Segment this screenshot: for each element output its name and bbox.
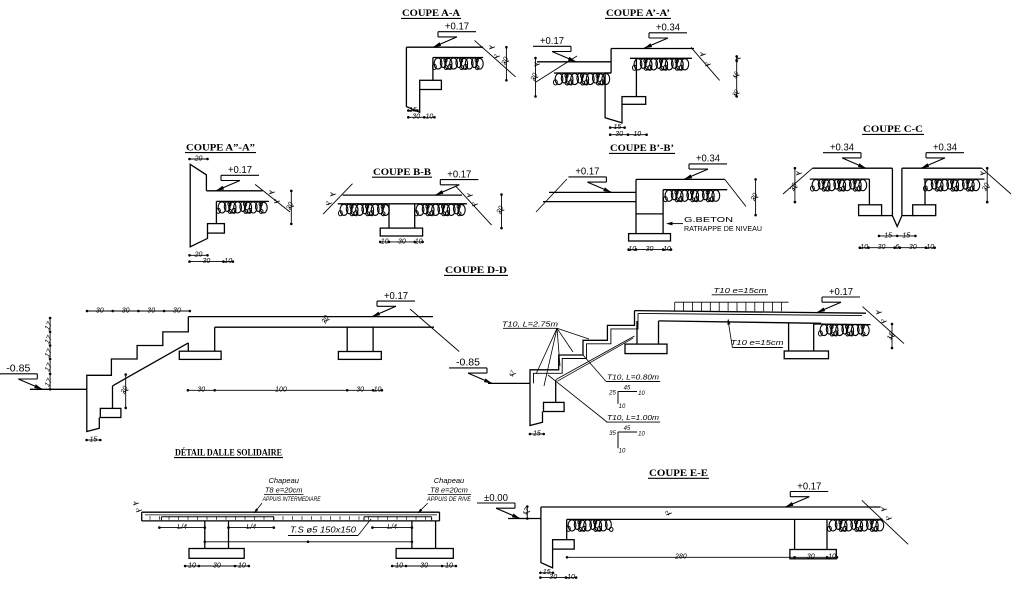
svg-text:30: 30 <box>96 307 104 314</box>
slab top line A-A <box>406 46 483 48</box>
left support detail <box>204 521 206 549</box>
svg-text:+0.17: +0.17 <box>447 169 471 180</box>
svg-text:T.S ø5 150x150: T.S ø5 150x150 <box>290 526 357 535</box>
stair base vertical dim <box>125 375 127 408</box>
svg-text:T10 e=15cm: T10 e=15cm <box>731 338 784 347</box>
left landing beam D-D <box>187 343 189 351</box>
level marker +0.34 B'-B' <box>689 163 727 165</box>
svg-text:10: 10 <box>567 574 575 581</box>
right break diagonal B-B <box>456 187 492 226</box>
svg-text:-0.85: -0.85 <box>456 358 480 369</box>
svg-text:30: 30 <box>398 238 406 245</box>
upper hourdis blocks B'-B' <box>665 190 673 201</box>
svg-text:+0.17: +0.17 <box>575 167 599 178</box>
level marker -0.85 right D-D <box>449 367 487 369</box>
level marker +-0.00 E-E <box>477 502 515 504</box>
break diagonal right A''-A'' <box>255 184 290 212</box>
svg-text:DÉTAIL DALLE SOLIDAIRE: DÉTAIL DALLE SOLIDAIRE <box>175 447 282 457</box>
svg-text:10: 10 <box>619 404 626 410</box>
svg-text:30: 30 <box>356 387 364 394</box>
top rebar ticks T10 e=15cm <box>675 301 789 303</box>
mini dim 17 E-E <box>526 507 528 519</box>
right chapeau bar <box>364 516 432 518</box>
left support right D-D <box>636 321 638 344</box>
svg-text:100: 100 <box>275 387 287 394</box>
level marker +0.34 A'-A' <box>649 32 687 34</box>
svg-text:30: 30 <box>197 387 205 394</box>
svg-text:G.BETON: G.BETON <box>684 215 733 224</box>
right hourdis blocks E-E <box>829 520 837 531</box>
left chapeau bar <box>161 516 273 518</box>
svg-text:+0.17: +0.17 <box>797 481 821 492</box>
floor line right D-D <box>488 382 530 384</box>
left vertical dim A'-A' <box>535 58 537 96</box>
level marker +0.17 B-B <box>440 179 478 181</box>
svg-text:+0.34: +0.34 <box>696 154 720 165</box>
hourdis blocks A''-A'' <box>218 202 226 213</box>
left hourdis blocks A'-A' <box>555 73 563 84</box>
svg-text:+0.17: +0.17 <box>384 291 408 302</box>
svg-text:COUPE B’-B’: COUPE B’-B’ <box>610 143 674 153</box>
svg-text:30: 30 <box>412 114 420 121</box>
svg-text:10: 10 <box>188 562 196 569</box>
svg-text:T10, L=0.80m: T10, L=0.80m <box>607 372 659 381</box>
level marker +0.34 left C-C <box>823 152 861 154</box>
right stair base <box>530 383 543 425</box>
svg-text:10: 10 <box>926 244 934 251</box>
bottom dims B'-B' <box>629 249 671 251</box>
left slab soffit C-C <box>810 178 870 180</box>
svg-text:10: 10 <box>395 562 403 569</box>
vertical dim right A''-A'' <box>290 191 292 224</box>
svg-text:RATRAPPE DE NIVEAU: RATRAPPE DE NIVEAU <box>684 224 762 233</box>
svg-text:30: 30 <box>549 574 557 581</box>
staircase outline D-D <box>87 317 189 390</box>
svg-text:25: 25 <box>608 391 616 397</box>
upper slab soffit B'-B' <box>663 189 727 191</box>
right support right D-D <box>788 323 790 351</box>
svg-text:COUPE E-E: COUPE E-E <box>649 468 708 478</box>
bent bar diagram 0.80 <box>618 391 637 393</box>
upper slab top B'-B' <box>636 178 725 180</box>
riser dims 17 x5 <box>49 318 51 389</box>
center beam A'-A' <box>610 49 612 74</box>
svg-text:30: 30 <box>173 307 181 314</box>
slab soffit line A-A <box>433 57 483 59</box>
slab outline detail <box>142 511 440 513</box>
right support detail <box>411 521 413 549</box>
right hourdis blocks B-B <box>416 204 424 215</box>
right stair rebar line <box>534 313 639 383</box>
right break diagonal A'-A' <box>691 47 720 80</box>
right break diagonal B'-B' <box>725 179 746 206</box>
svg-text:-0.85: -0.85 <box>6 364 30 375</box>
svg-text:COUPE D-D: COUPE D-D <box>445 265 508 275</box>
ledge rect A''-A'' <box>208 224 225 234</box>
svg-text:45: 45 <box>624 426 631 432</box>
svg-text:APPUIS INTERMEDIARE: APPUIS INTERMEDIARE <box>262 497 322 503</box>
svg-text:45: 45 <box>624 385 631 391</box>
left hourdis blocks C-C <box>812 180 820 191</box>
svg-text:COUPE A”-A”: COUPE A”-A” <box>186 142 256 152</box>
slab rebar line right D-D <box>638 313 862 315</box>
svg-text:+0.34: +0.34 <box>933 143 957 154</box>
svg-text:10: 10 <box>426 114 434 121</box>
svg-text:6: 6 <box>895 244 899 251</box>
svg-text:30: 30 <box>646 246 654 253</box>
svg-text:±0.00: ±0.00 <box>484 493 508 504</box>
svg-text:T8 e=20cm: T8 e=20cm <box>265 485 303 494</box>
svg-text:Chapeau: Chapeau <box>434 476 465 485</box>
svg-text:T10, L=1.00m: T10, L=1.00m <box>607 413 659 422</box>
hourdis blocks A-A <box>434 58 442 69</box>
svg-text:+0.17: +0.17 <box>445 22 469 33</box>
mid slab mark E-E <box>666 513 672 515</box>
bottom dim 280 E-E <box>567 556 837 558</box>
left wall E-E <box>541 507 553 568</box>
right slab top C-C <box>902 167 982 169</box>
svg-text:+0.34: +0.34 <box>656 23 680 34</box>
level marker +0.17 A'-A' <box>533 45 571 47</box>
beam footing B'-B' <box>629 234 671 241</box>
svg-text:L/4: L/4 <box>387 524 397 531</box>
svg-text:10: 10 <box>638 431 645 437</box>
break diagonal D-D left part <box>410 309 459 352</box>
svg-text:+0.17: +0.17 <box>829 287 853 298</box>
svg-text:15: 15 <box>902 232 910 239</box>
svg-text:30: 30 <box>122 307 130 314</box>
footing dims detail <box>185 565 249 567</box>
right break diagonal C-C <box>982 168 1011 194</box>
right slab soffit C-C <box>924 178 985 180</box>
right slab top A'-A' <box>611 48 694 50</box>
svg-text:15: 15 <box>533 430 541 437</box>
stair base dim 15 <box>87 439 101 441</box>
level marker +0.17 A-A <box>438 31 476 33</box>
hourdis blocks right D-D <box>820 324 828 335</box>
right hourdis blocks C-C <box>925 180 933 191</box>
svg-text:35: 35 <box>609 431 616 437</box>
vertical dim right B-B <box>501 195 503 229</box>
oblique dims right D-D <box>876 312 882 314</box>
far right vertical dim A'-A' <box>736 56 738 96</box>
left slab top C-C <box>813 167 893 169</box>
oblique dims 4/2 A''-A'' <box>269 192 275 194</box>
L/4 dims detail <box>159 527 204 529</box>
battered wall outline A''-A'' <box>190 164 207 247</box>
left hourdis blocks B-B <box>340 204 348 215</box>
slab thickness mark D-D <box>324 319 330 321</box>
stair sloped soffit D-D <box>113 343 189 386</box>
svg-text:30: 30 <box>203 258 211 265</box>
slab top line D-D <box>188 316 433 318</box>
svg-text:COUPE C-C: COUPE C-C <box>863 124 923 134</box>
slab bottom right D-D <box>659 321 822 323</box>
slab soffit E-E <box>567 518 883 520</box>
wall and beam outline A-A <box>406 47 419 112</box>
long dim between supports <box>205 541 412 543</box>
svg-text:30: 30 <box>213 562 221 569</box>
fan leader lines <box>536 328 557 374</box>
svg-text:10: 10 <box>860 244 868 251</box>
svg-text:10: 10 <box>415 238 423 245</box>
level marker +0.17 right D-D <box>822 296 860 298</box>
vertical dim 20 right of A-A <box>505 47 507 80</box>
level marker +0.17 A''-A'' <box>221 174 259 176</box>
right break diagonal E-E <box>862 500 908 544</box>
right vertical dim C-C <box>986 168 988 202</box>
svg-text:L/4: L/4 <box>177 524 187 531</box>
svg-text:10: 10 <box>374 387 382 394</box>
svg-text:20: 20 <box>194 252 203 259</box>
svg-text:10: 10 <box>633 131 641 138</box>
right hourdis blocks A'-A' <box>634 59 642 70</box>
T-beam web B-B <box>388 204 390 228</box>
level marker -0.85 left D-D <box>0 373 37 375</box>
svg-text:10: 10 <box>445 562 453 569</box>
mesh ticks detail <box>149 516 151 520</box>
stair base D-D <box>87 389 100 431</box>
svg-text:T10 e=15cm: T10 e=15cm <box>714 286 767 295</box>
svg-text:+0.34: +0.34 <box>830 143 854 154</box>
right stair sloped soffit <box>556 336 635 380</box>
svg-text:20: 20 <box>194 155 203 162</box>
svg-text:30: 30 <box>807 554 815 561</box>
slab rebar line detail <box>145 514 437 516</box>
slab soffit A''-A'' <box>216 200 269 202</box>
svg-text:L/4: L/4 <box>246 524 256 531</box>
slab bottom line D-D <box>215 326 434 328</box>
svg-text:30: 30 <box>420 562 428 569</box>
left oblique mark detail <box>133 503 139 505</box>
bottom dims B-B <box>380 241 422 243</box>
svg-text:10: 10 <box>828 554 836 561</box>
svg-text:Chapeau: Chapeau <box>268 476 299 485</box>
floor line left D-D <box>30 388 87 390</box>
svg-text:15: 15 <box>90 436 98 443</box>
svg-text:APPUIS DE RIVE: APPUIS DE RIVE <box>426 497 472 503</box>
svg-text:10: 10 <box>628 246 636 253</box>
svg-text:T10, L=2.75m: T10, L=2.75m <box>502 319 558 328</box>
svg-text:15: 15 <box>884 232 892 239</box>
svg-text:T8 e=20cm: T8 e=20cm <box>430 485 468 494</box>
right vertical dim B'-B' <box>755 179 757 215</box>
oblique dims right B-B <box>467 195 473 197</box>
left hourdis blocks E-E <box>568 520 576 531</box>
left vertical dim C-C <box>794 168 796 202</box>
left break diagonal B-B <box>323 184 353 215</box>
svg-text:280: 280 <box>674 554 687 561</box>
svg-text:15: 15 <box>614 124 622 131</box>
mini dims 15 15 C-C <box>879 235 915 237</box>
bottom dims A''-A'' <box>190 254 208 256</box>
T-beam footing B-B <box>380 228 422 236</box>
slab top line A''-A'' <box>206 190 262 192</box>
svg-text:COUPE B-B: COUPE B-B <box>373 167 431 177</box>
svg-text:30: 30 <box>909 244 917 251</box>
oblique dims E-E <box>881 509 887 511</box>
center beam B'-B' <box>635 179 637 233</box>
bent bar diagram 1.00 <box>618 431 637 433</box>
slab top line B-B <box>343 194 462 196</box>
right support beam D-D <box>346 327 348 351</box>
left slab soffit A'-A' <box>554 72 611 74</box>
left break diagonal A'-A' <box>536 56 577 82</box>
svg-text:COUPE A’-A’: COUPE A’-A’ <box>606 8 670 18</box>
break diagonal right D-D <box>863 307 905 344</box>
svg-text:10: 10 <box>238 562 246 569</box>
svg-text:30: 30 <box>878 244 886 251</box>
svg-text:10: 10 <box>663 246 671 253</box>
svg-text:COUPE A-A: COUPE A-A <box>402 8 461 18</box>
svg-text:30: 30 <box>147 307 155 314</box>
slab top line E-E <box>541 506 881 508</box>
svg-text:10: 10 <box>224 258 232 265</box>
level marker +0.34 right C-C <box>926 152 964 154</box>
bottom dims D-D left <box>188 389 382 391</box>
bottom dims A-A <box>408 110 417 112</box>
tread dims 30 x4 <box>87 310 190 312</box>
right slab soffit A'-A' <box>630 57 692 59</box>
left break diagonal B'-B' <box>536 179 567 212</box>
lower slab B'-B' <box>549 191 636 193</box>
center tapered beam C-C <box>891 168 893 215</box>
slab soffit line B-B <box>338 203 467 205</box>
top dim 20 A''-A'' <box>190 158 208 160</box>
bottom dims A'-A' <box>610 127 624 129</box>
svg-text:10: 10 <box>638 391 645 397</box>
floor line E-E <box>508 518 541 520</box>
oblique dims 4/2 right A'-A' <box>700 54 706 56</box>
left slab top A'-A' <box>537 61 611 63</box>
oblique dims left B-B <box>330 194 336 196</box>
break diagonal right A-A <box>475 40 516 77</box>
right support E-E <box>794 519 796 549</box>
svg-text:+0.17: +0.17 <box>228 165 252 176</box>
slab top right D-D <box>635 311 867 314</box>
svg-text:10: 10 <box>619 448 626 454</box>
bottom dims C-C <box>860 247 935 249</box>
svg-text:+0.17: +0.17 <box>540 36 564 47</box>
level marker +0.17 E-E <box>790 491 828 493</box>
svg-text:30: 30 <box>615 131 623 138</box>
level marker +0.17 D-D <box>377 300 415 302</box>
svg-text:10: 10 <box>381 238 389 245</box>
left break diagonal C-C <box>783 168 813 194</box>
oblique dims 4/2 A-A <box>489 47 495 49</box>
level marker +0.17 B'-B' <box>568 176 606 178</box>
bottom left dims E-E <box>540 572 553 574</box>
right staircase outline D-D <box>530 311 635 384</box>
